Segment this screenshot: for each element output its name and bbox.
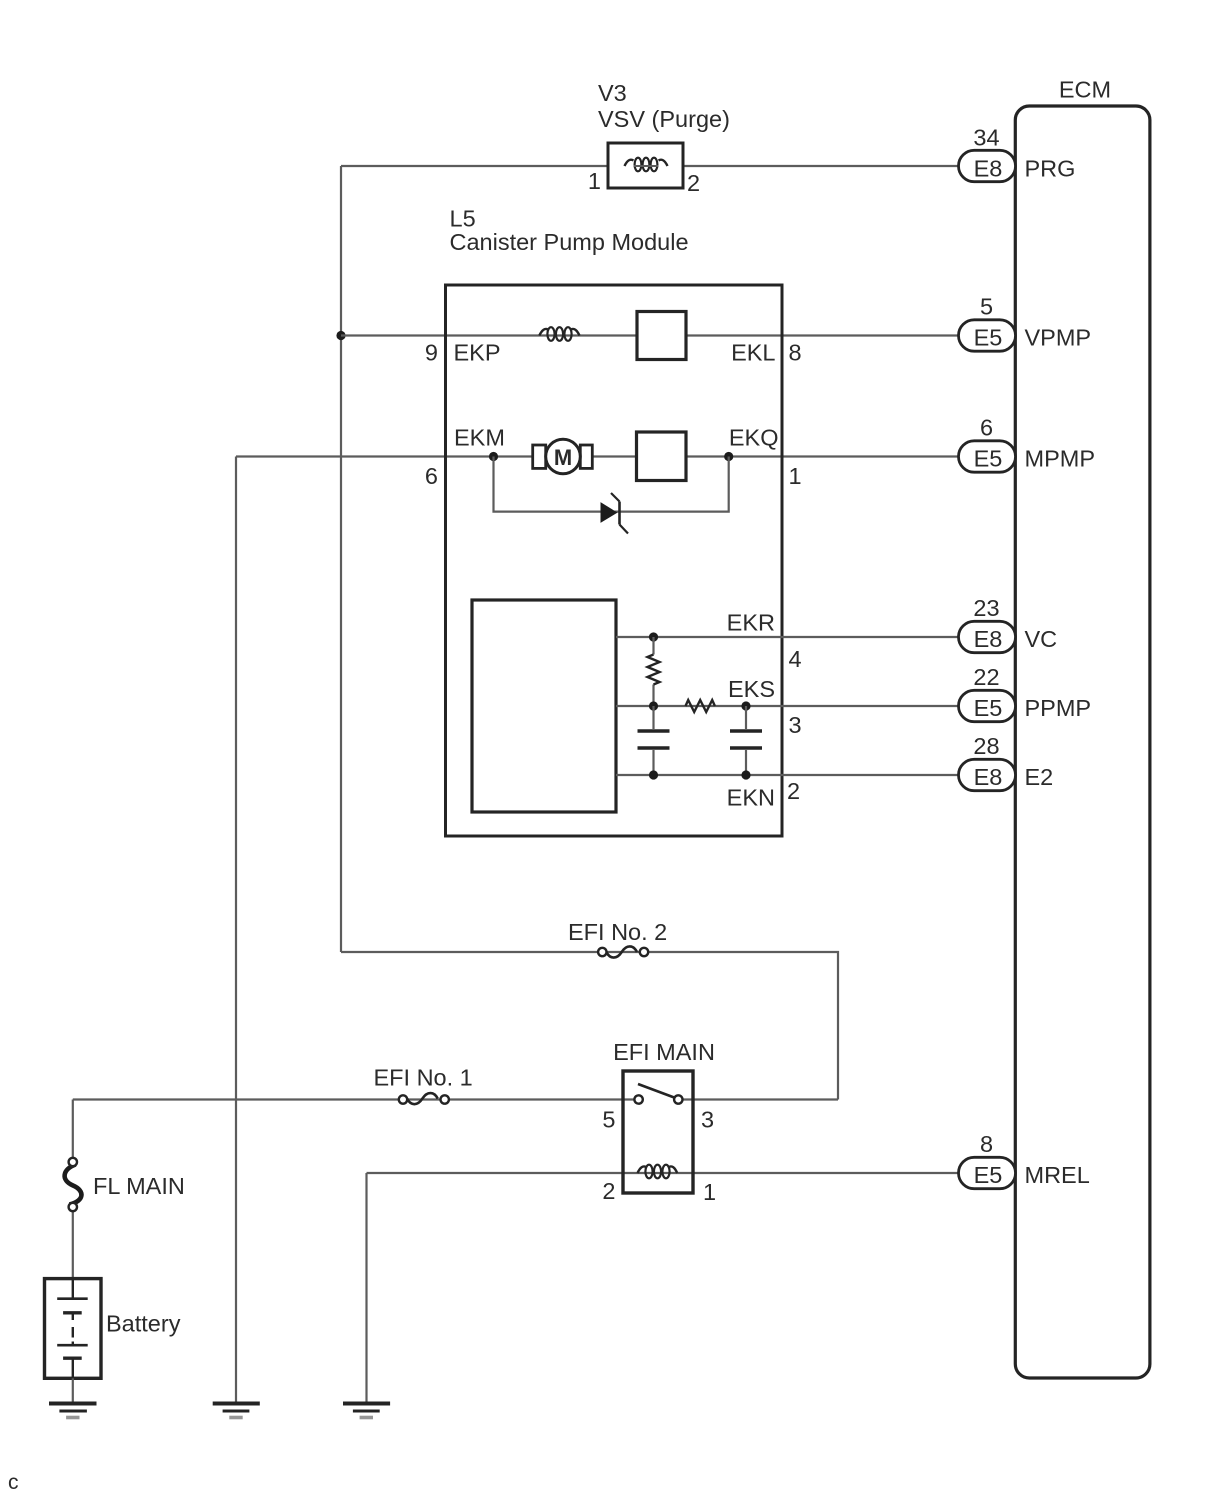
inductor in pump module on EKP row — [539, 327, 579, 341]
svg-text:VSV (Purge): VSV (Purge) — [598, 106, 730, 132]
svg-text:c: c — [8, 1471, 19, 1494]
zener diode across motor — [601, 493, 628, 534]
svg-text:ECM: ECM — [1059, 77, 1111, 103]
node: junction dot EKN row right — [741, 770, 750, 779]
connector E8 pin 28 E2: oval E8 — [959, 759, 1016, 790]
wire: left vertical bus from PRG row down to EFI No.2 row (x=341) — [340, 166, 342, 952]
solenoid V3 VSV (Purge) — [608, 143, 683, 188]
wire: diode bypass loop under motor — [494, 457, 729, 512]
svg-text:E8: E8 — [974, 764, 1003, 790]
svg-text:22: 22 — [973, 664, 999, 690]
node: junction dot EKS row right — [741, 701, 750, 710]
svg-text:V3: V3 — [598, 80, 627, 106]
svg-text:2: 2 — [687, 170, 700, 196]
svg-text:EKP: EKP — [454, 340, 501, 366]
svg-text:PPMP: PPMP — [1025, 695, 1092, 721]
svg-text:PRG: PRG — [1025, 156, 1076, 182]
svg-text:3: 3 — [789, 712, 802, 738]
svg-text:EFI No. 2: EFI No. 2 — [568, 919, 667, 945]
wire: EFI No.1 net from battery corner to relay pin 5 — [73, 1098, 635, 1100]
fuse EFI No.2 — [598, 946, 648, 957]
wire: battery to ground — [72, 1378, 74, 1401]
fusible link FL MAIN — [65, 1158, 82, 1211]
svg-text:EFI MAIN: EFI MAIN — [613, 1039, 715, 1065]
svg-text:34: 34 — [973, 125, 999, 151]
svg-text:5: 5 — [980, 294, 993, 320]
capacitor right between EKS and EKN — [730, 706, 762, 775]
svg-text:E5: E5 — [974, 325, 1003, 351]
node: junction dot EKR row — [649, 632, 658, 641]
svg-text:FL MAIN: FL MAIN — [93, 1173, 185, 1199]
svg-text:EKL: EKL — [731, 340, 775, 366]
wire: E2 net (EKN row) from sensor to ECM E8 pin 28 — [616, 774, 960, 776]
connector E8 pin 34 PRG: oval E8 — [959, 150, 1016, 181]
component box on EKM-EKQ row — [637, 432, 687, 481]
label V3 VSV (Purge) — [598, 80, 730, 132]
svg-text:Battery: Battery — [106, 1311, 181, 1337]
svg-text:E5: E5 — [974, 695, 1003, 721]
svg-text:L5: L5 — [450, 206, 476, 232]
wire: PPMP net (EKS row) from sensor to ECM E5 pin 22 — [616, 705, 960, 707]
relay switch contact pin 3 — [674, 1095, 682, 1103]
svg-text:EKR: EKR — [727, 610, 775, 636]
motor M pump symbol — [533, 439, 593, 474]
relay switch blade — [638, 1084, 676, 1098]
svg-text:EKM: EKM — [454, 425, 505, 451]
svg-text:EFI No. 1: EFI No. 1 — [374, 1065, 473, 1091]
svg-text:6: 6 — [980, 415, 993, 441]
resistor horizontal on EKS row — [686, 700, 715, 712]
connector E5 pin 6 MPMP: oval E5 — [959, 441, 1016, 472]
ground: middle bus — [213, 1404, 260, 1418]
ground: battery — [49, 1404, 97, 1418]
svg-text:1: 1 — [703, 1179, 716, 1205]
svg-text:E2: E2 — [1025, 764, 1054, 790]
canister pump module L5 outline box — [446, 285, 783, 836]
svg-text:M: M — [554, 445, 572, 470]
wire: battery positive riser (x=72.8) — [72, 1100, 74, 1281]
svg-text:28: 28 — [973, 733, 999, 759]
wire: vertical bus from MREL row down to ground (x=366.5) — [365, 1173, 367, 1402]
relay EFI MAIN box — [623, 1071, 693, 1193]
node: junction dot at bus and VPMP row — [336, 331, 345, 340]
svg-text:8: 8 — [789, 340, 802, 366]
svg-text:VC: VC — [1025, 626, 1058, 652]
pressure sensor box inside pump module — [472, 600, 616, 812]
svg-text:9: 9 — [425, 340, 438, 366]
svg-text:E5: E5 — [974, 1162, 1003, 1188]
component box on EKP-EKL row — [637, 312, 686, 360]
wire: relay pin 3 to EFI No.2 riser — [683, 1098, 839, 1100]
wire: PRG net horizontal from bus to ECM E8 pin 34 — [341, 165, 960, 167]
svg-text:E5: E5 — [974, 446, 1003, 472]
node: junction dot EKM — [489, 452, 498, 461]
wire: middle vertical bus from MPMP row down to ground (x=236) — [235, 457, 237, 1402]
fuse EFI No.1 — [399, 1093, 449, 1104]
node: junction dot EKS row left — [649, 701, 658, 710]
svg-text:5: 5 — [602, 1107, 615, 1133]
connector E5 pin 5 VPMP: oval E5 — [959, 320, 1016, 351]
svg-text:3: 3 — [701, 1107, 714, 1133]
wire: EFI No.2 net from bus corner to relay pin 3 riser — [341, 952, 838, 1100]
ECM module box — [1015, 106, 1150, 1378]
label L5 Canister Pump Module — [450, 206, 689, 256]
resistor vertical between EKR and EKS rows — [648, 637, 660, 706]
svg-text:EKN: EKN — [727, 785, 775, 811]
node: junction dot EKN row left — [649, 770, 658, 779]
capacitor left between EKS and EKN — [638, 706, 670, 775]
svg-text:MREL: MREL — [1025, 1162, 1090, 1188]
svg-text:E8: E8 — [974, 156, 1003, 182]
svg-text:4: 4 — [789, 646, 802, 672]
svg-text:EKS: EKS — [728, 676, 775, 702]
wire: MREL net from left riser through relay coil to ECM E5 pin 8 — [367, 1172, 960, 1174]
svg-text:E8: E8 — [974, 626, 1003, 652]
relay coil on MREL row — [638, 1165, 678, 1179]
svg-text:MPMP: MPMP — [1025, 446, 1096, 472]
relay switch contact pin 5 — [634, 1095, 642, 1103]
svg-text:1: 1 — [789, 463, 802, 489]
battery — [45, 1279, 102, 1379]
svg-text:23: 23 — [973, 595, 999, 621]
wire: MPMP net (EKM-EKQ row) from left bus corner to ECM E5 pin 6 — [236, 455, 960, 457]
svg-text:8: 8 — [980, 1131, 993, 1157]
wire: VPMP net (EKP-EKL row) from bus junction to ECM E5 pin 5 — [341, 334, 960, 336]
svg-text:EKQ: EKQ — [729, 425, 779, 451]
svg-text:6: 6 — [425, 463, 438, 489]
svg-text:2: 2 — [787, 778, 800, 804]
node: junction dot EKQ — [724, 452, 733, 461]
svg-text:VPMP: VPMP — [1025, 325, 1092, 351]
connector E5 pin 8 MREL: oval E5 — [959, 1157, 1016, 1188]
connector E8 pin 23 VC: oval E8 — [959, 621, 1016, 652]
svg-text:1: 1 — [588, 168, 601, 194]
svg-text:Canister Pump Module: Canister Pump Module — [450, 229, 689, 255]
wire: VC net (EKR row) from sensor to ECM E8 pin 23 — [616, 636, 960, 638]
ground: MREL bus — [343, 1404, 390, 1418]
connector E5 pin 22 PPMP: oval E5 — [959, 690, 1016, 721]
svg-text:2: 2 — [602, 1178, 615, 1204]
